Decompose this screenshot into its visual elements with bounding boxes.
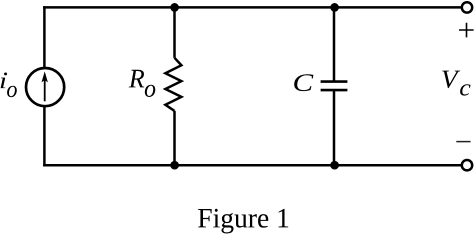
current source U1 circle: [26, 68, 64, 106]
node junction bottom-resistor: [170, 161, 179, 170]
wire bottom rail: [43, 164, 462, 167]
wire left branch lower: [43, 106, 46, 166]
label Vc subscript c: [460, 84, 470, 95]
node junction top-capacitor: [330, 3, 339, 12]
current source arrowhead: [42, 71, 48, 82]
label i_o subscript o: [7, 86, 17, 98]
current source arrow shaft: [44, 79, 46, 102]
caption Figure 1: [198, 209, 288, 234]
capacitor C top plate: [321, 80, 348, 83]
label Vc letter V: [442, 71, 460, 89]
label Ro subscript o: [145, 85, 155, 97]
label C: [294, 74, 313, 91]
label Ro letter R: [129, 70, 145, 88]
label i dot: [4, 72, 7, 75]
node junction bottom-capacitor: [330, 161, 339, 170]
plus sign: [459, 23, 474, 38]
capacitor C bottom plate: [321, 89, 348, 92]
wire capacitor bottom stub: [333, 90, 336, 166]
wire top rail: [43, 6, 462, 9]
minus sign: [456, 141, 470, 143]
terminal top-right: [462, 2, 472, 12]
wire capacitor top stub: [333, 6, 336, 81]
terminal bottom-right: [462, 160, 472, 170]
wire left branch upper: [43, 6, 46, 68]
node junction top-resistor: [170, 3, 179, 12]
label i_o letter i stem: [1, 78, 6, 89]
wire resistor bottom stub: [173, 111, 176, 166]
wire resistor top stub: [173, 6, 176, 58]
resistor Ro zigzag: [165, 58, 181, 111]
